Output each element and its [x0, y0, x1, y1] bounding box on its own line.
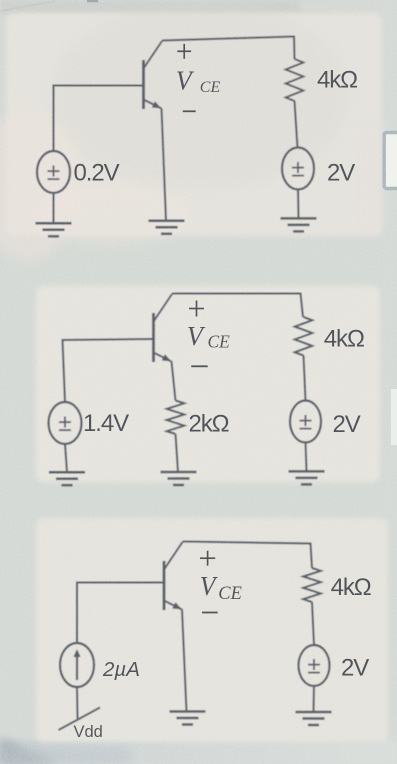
warm tint right edge near input box [358, 118, 388, 228]
vignette over panel 1 [50, 0, 350, 190]
wire V1 top to Q1 base [54, 86, 144, 152]
transistor Q3 (NPN) [164, 542, 183, 610]
voltage source V2 2V [282, 148, 314, 190]
wire R3 to V4 [304, 356, 306, 401]
ground (below Q3 emitter) [170, 712, 206, 725]
wire top rail (Q3 collector to R4) [183, 542, 313, 569]
label + (VCE plus, circuit 2) [189, 301, 204, 317]
wire top rail (Q1 collector to R1) [162, 37, 295, 60]
ground (below V2) [281, 218, 317, 231]
wire top rail (Q2 collector to R3) [172, 294, 303, 318]
wire V5 to ground [313, 686, 316, 712]
wire V4 to ground [306, 443, 307, 472]
voltage source V4 2V [290, 401, 321, 443]
wire R4 to V5 [312, 602, 314, 645]
wire Q2 emitter to R2 [172, 362, 176, 401]
wire V3 bottom to ground [65, 444, 67, 472]
label minus (VCE minus, circuit 2) [191, 365, 208, 367]
label + (VCE plus, circuit 3) [200, 551, 215, 566]
panel 3 [36, 518, 388, 742]
Vdd rail slash [59, 708, 101, 731]
resistor R1 4k [286, 59, 304, 101]
wire R1 to V2 [295, 101, 298, 148]
wire I1 bottom [76, 687, 79, 719]
ground (below V4) [289, 471, 325, 484]
wire V3 top to Q2 base [63, 339, 154, 402]
wire I1 top to Q3 base [77, 583, 164, 644]
ground (below V5) [296, 712, 332, 725]
wire V2 to ground [297, 190, 300, 219]
wire V1 bottom to ground [53, 193, 55, 223]
panel 2 [36, 286, 380, 482]
voltage source V5 2V [299, 645, 330, 686]
ground (below V3) [49, 472, 85, 485]
wire Q1 emitter to ground [162, 109, 167, 221]
transistor Q1 (NPN) [144, 41, 163, 109]
transistor Q2 (NPN) [154, 294, 173, 362]
label minus (VCE minus) [183, 110, 196, 112]
top edge artifacts [0, 1, 55, 11]
wire R2 to ground [176, 434, 179, 472]
voltage source V3 1.4V [49, 402, 82, 444]
panel 1 [6, 13, 382, 236]
resistor R3 4k [295, 317, 313, 356]
resistor R2 2k [167, 401, 185, 435]
current source I1 2uA [60, 643, 94, 687]
ground (below Q1 emitter) [149, 221, 185, 234]
warm tint left [0, 110, 80, 260]
input box at right edge [384, 133, 397, 189]
dark bottom-left corner [0, 738, 58, 764]
wire Q3 emitter to ground [182, 610, 187, 712]
voltage source V1 0.2V [37, 151, 70, 193]
label + (VCE plus) [177, 44, 191, 59]
faint box edge right, middle [391, 389, 397, 445]
label minus (VCE minus, circuit 3) [202, 612, 218, 614]
ground (below R2) [161, 472, 197, 485]
resistor R4 4k [303, 568, 321, 602]
ground (below V1) [36, 223, 72, 236]
